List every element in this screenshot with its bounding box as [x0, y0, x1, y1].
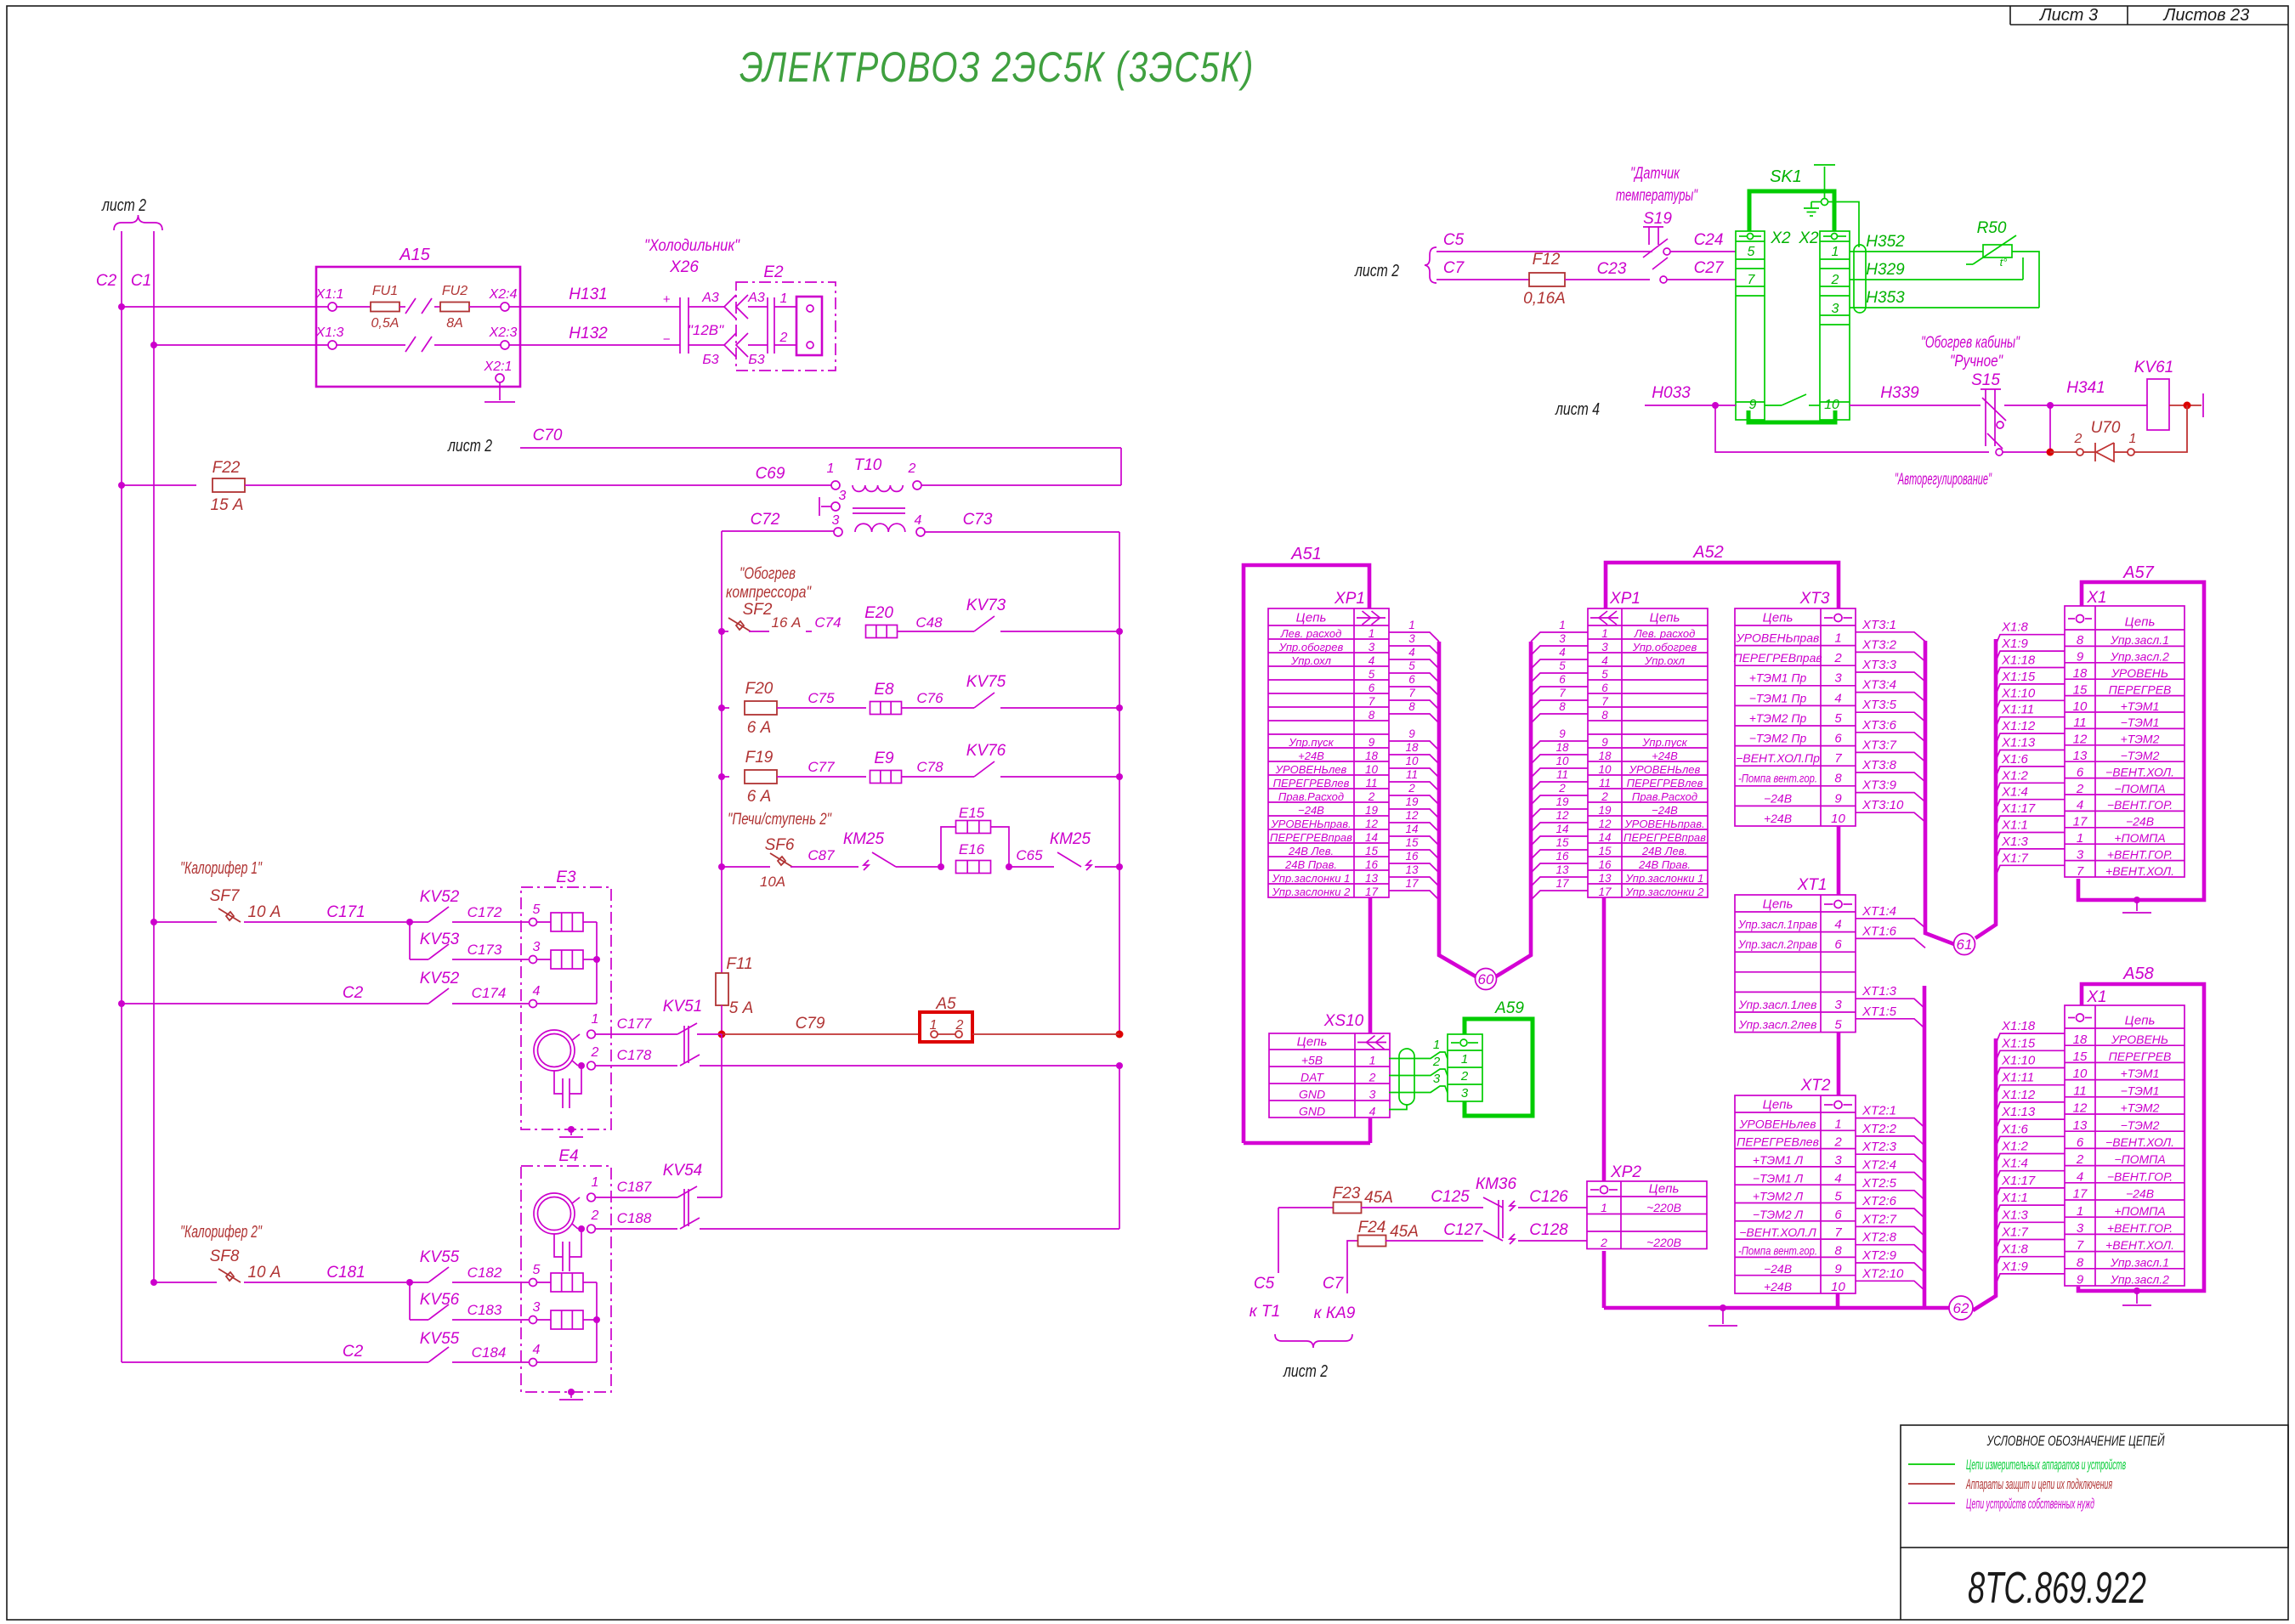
svg-text:УРОВЕНЬправ.: УРОВЕНЬправ. — [1623, 818, 1704, 830]
svg-text:1: 1 — [1601, 1201, 1607, 1214]
svg-text:18: 18 — [1365, 750, 1379, 762]
svg-text:+24В: +24В — [1764, 812, 1792, 825]
wire C126 — [1518, 1207, 1587, 1208]
wire C5 — [1436, 251, 1652, 252]
svg-text:4: 4 — [1559, 646, 1566, 659]
E4 pin 4 — [530, 1359, 537, 1367]
ground on bus — [1720, 1304, 1726, 1311]
wire C128 — [1518, 1240, 1587, 1242]
svg-text:17: 17 — [1555, 877, 1569, 890]
svg-text:ХТ3:5: ХТ3:5 — [1861, 698, 1897, 712]
svg-text:КМ25: КМ25 — [843, 830, 885, 848]
svg-text:4: 4 — [1408, 646, 1415, 659]
wire C1 vertical bus — [153, 231, 155, 1282]
svg-text:ХТ3:10: ХТ3:10 — [1861, 798, 1904, 812]
svg-text:F19: F19 — [745, 749, 773, 767]
svg-text:Упр.охл: Упр.охл — [1290, 654, 1332, 667]
wire C79 (red) — [718, 1031, 726, 1038]
svg-text:+ТЭМ1: +ТЭМ1 — [2121, 699, 2160, 713]
svg-text:24В Лев.: 24В Лев. — [1288, 845, 1334, 857]
table XT3 — [1735, 608, 1856, 826]
connector table A59 — [1448, 1034, 1482, 1101]
link H341 junction to lower row — [2049, 405, 2051, 452]
svg-text:45А: 45А — [1364, 1189, 1393, 1207]
svg-text:−24В: −24В — [1764, 791, 1792, 805]
row SF6 KM25: breaker SF6 10A — [718, 863, 725, 870]
E4 pin 3 with heater — [530, 1316, 537, 1324]
svg-text:УРОВЕНЬ: УРОВЕНЬ — [2111, 1033, 2168, 1046]
svg-text:+ПОМПА: +ПОМПА — [2114, 831, 2165, 845]
contact KV73 — [974, 616, 994, 631]
svg-text:С23: С23 — [1597, 260, 1627, 278]
svg-text:Е8: Е8 — [874, 681, 894, 699]
svg-text:SF2: SF2 — [743, 601, 773, 619]
svg-text:9: 9 — [1834, 791, 1842, 806]
svg-text:Н131: Н131 — [569, 286, 607, 303]
SK1 internal contact 9-10 — [1765, 405, 1782, 406]
svg-text:61: 61 — [1957, 936, 1973, 953]
wire XS10-2 to A59-2 (green) — [1389, 1069, 1448, 1076]
svg-text:ПЕРЕГРЕВлев: ПЕРЕГРЕВлев — [1273, 777, 1350, 789]
svg-text:Х1:15: Х1:15 — [2001, 670, 2036, 684]
thick vertical XT3 to XT1 — [1837, 826, 1841, 895]
svg-text:F23: F23 — [1333, 1185, 1361, 1202]
svg-text:−ТЭМ2 Л: −ТЭМ2 Л — [1753, 1208, 1804, 1221]
svg-text:С184: С184 — [472, 1344, 507, 1361]
svg-text:1: 1 — [2077, 1204, 2083, 1219]
wire C188 — [595, 1228, 677, 1230]
svg-text:А3: А3 — [747, 291, 765, 305]
svg-text:9: 9 — [2077, 650, 2084, 665]
T10 core — [853, 507, 905, 509]
svg-text:10: 10 — [1365, 763, 1379, 776]
thick vertical XT1 to XT2 — [1837, 1033, 1841, 1095]
svg-text:R50: R50 — [1977, 219, 2007, 237]
svg-text:Х1:11: Х1:11 — [2001, 703, 2034, 717]
svg-text:лист 2: лист 2 — [1283, 1362, 1328, 1381]
svg-text:3: 3 — [832, 513, 840, 528]
E3 pin 4 — [530, 1000, 537, 1008]
svg-text:7: 7 — [1748, 273, 1756, 287]
svg-text:Х1:7: Х1:7 — [2001, 851, 2029, 865]
row SF8: breaker SF8 10 A — [150, 1279, 157, 1286]
E4 motor pin 1 — [572, 1197, 580, 1203]
svg-text:1: 1 — [1834, 1117, 1841, 1131]
left rail of compressor-heater group — [721, 531, 722, 973]
A57 ground — [2133, 897, 2140, 903]
svg-text:2: 2 — [591, 1045, 599, 1060]
node circle 60 — [1476, 969, 1497, 990]
svg-text:1: 1 — [592, 1175, 599, 1190]
R50 output loop to H353 — [2012, 252, 2039, 308]
svg-text:ХТ3:7: ХТ3:7 — [1861, 738, 1897, 752]
svg-text:С172: С172 — [467, 904, 502, 920]
svg-text:15: 15 — [1405, 836, 1419, 849]
svg-text:SF6: SF6 — [765, 836, 795, 854]
svg-text:Х1:17: Х1:17 — [2001, 1174, 2036, 1188]
svg-text:GND: GND — [1299, 1088, 1325, 1101]
legend red line + text — [1908, 1483, 1955, 1485]
svg-text:ХТ3:6: ХТ3:6 — [1861, 718, 1897, 733]
svg-text:+ВЕНТ.ХОЛ.: +ВЕНТ.ХОЛ. — [2105, 1238, 2174, 1252]
svg-text:KV52: KV52 — [420, 970, 460, 987]
svg-text:18: 18 — [2073, 666, 2088, 681]
svg-text:"Обогрев: "Обогрев — [739, 565, 796, 583]
svg-text:С70: С70 — [533, 427, 563, 444]
svg-text:Х1:2: Х1:2 — [2001, 768, 2029, 783]
svg-text:ХТ3:1: ХТ3:1 — [1861, 618, 1896, 632]
title block 8ТС.869.922 — [1900, 1548, 1901, 1620]
svg-text:Упр.обогрев: Упр.обогрев — [1278, 641, 1344, 654]
cable marker (green oval) XS10-A59 — [1399, 1049, 1414, 1105]
svg-text:14: 14 — [1405, 823, 1418, 835]
svg-text:3: 3 — [1834, 998, 1842, 1012]
svg-text:DAT: DAT — [1300, 1071, 1324, 1084]
legend green line + text — [1908, 1463, 1955, 1465]
table XP1 A51 — [1268, 608, 1389, 897]
svg-text:"12В": "12В" — [688, 322, 724, 338]
svg-text:−24В: −24В — [1764, 1262, 1792, 1276]
svg-text:лист 2: лист 2 — [1354, 262, 1399, 280]
svg-text:5: 5 — [1834, 1190, 1842, 1204]
svg-text:FU2: FU2 — [442, 284, 467, 298]
row SF7: breaker SF7 10 A — [150, 919, 157, 925]
svg-text:+ВЕНТ.ГОР.: +ВЕНТ.ГОР. — [2107, 1221, 2173, 1235]
svg-text:Цепь: Цепь — [1763, 611, 1793, 625]
svg-text:Цепи устройств собственных нуж: Цепи устройств собственных нужд — [1966, 1496, 2094, 1512]
svg-text:Цепь: Цепь — [1297, 1035, 1328, 1050]
svg-text:16: 16 — [1405, 850, 1419, 863]
svg-text:−ВЕНТ.ГОР.: −ВЕНТ.ГОР. — [2107, 798, 2173, 812]
svg-text:F22: F22 — [212, 459, 241, 477]
svg-text:Х1:1: Х1:1 — [315, 287, 344, 302]
svg-text:5: 5 — [533, 903, 541, 917]
wire C24 — [1670, 251, 1736, 252]
vertical rail to KV54 — [721, 1034, 722, 1190]
wire C7 with fuse F12 0,16A — [1436, 279, 1530, 280]
svg-text:16: 16 — [1598, 858, 1612, 871]
svg-text:УСЛОВНОЕ ОБОЗНАЧЕНИЕ ЦЕПЕЙ: УСЛОВНОЕ ОБОЗНАЧЕНИЕ ЦЕПЕЙ — [1986, 1432, 2165, 1449]
fuse FU1 0,5A — [337, 306, 371, 308]
svg-text:2: 2 — [1460, 1069, 1469, 1084]
svg-text:11: 11 — [1599, 777, 1611, 789]
svg-text:13: 13 — [2073, 1118, 2088, 1133]
svg-text:12: 12 — [2073, 1101, 2088, 1116]
svg-text:Н341: Н341 — [2066, 379, 2105, 397]
svg-text:S15: S15 — [1971, 371, 2000, 389]
svg-text:12: 12 — [1598, 818, 1612, 830]
svg-text:Н132: Н132 — [569, 325, 608, 342]
wire XS10-1 to A59-1 (green) — [1389, 1052, 1448, 1059]
svg-text:Прав.Расход: Прав.Расход — [1632, 790, 1697, 803]
svg-text:16 А: 16 А — [772, 614, 802, 631]
wire H033 — [1645, 405, 1736, 406]
svg-text:ЭЛЕКТРОВОЗ 2ЭС5К (3ЭС5К): ЭЛЕКТРОВОЗ 2ЭС5К (3ЭС5К) — [739, 43, 1255, 91]
svg-text:А15: А15 — [399, 246, 430, 264]
svg-text:ХТ3:3: ХТ3:3 — [1861, 658, 1897, 672]
svg-text:6 А: 6 А — [747, 719, 772, 737]
svg-text:Х2: Х2 — [1798, 229, 1819, 247]
svg-text:ХS10: ХS10 — [1323, 1012, 1364, 1030]
svg-text:Цепь: Цепь — [1296, 611, 1327, 625]
svg-text:С174: С174 — [472, 985, 507, 1001]
svg-text:ХТ2:6: ХТ2:6 — [1861, 1194, 1897, 1208]
svg-text:С125: С125 — [1431, 1188, 1470, 1206]
svg-text:2: 2 — [1558, 782, 1566, 795]
SK1 earth terminal circle — [1822, 199, 1828, 206]
svg-text:2: 2 — [908, 461, 916, 476]
svg-text:+ТЭМ1 Пр: +ТЭМ1 Пр — [1749, 671, 1807, 685]
svg-text:9: 9 — [1601, 736, 1608, 749]
label C65 — [1009, 866, 1054, 868]
row F19: fuse F19 6 A — [718, 773, 725, 780]
svg-text:KV76: KV76 — [966, 742, 1006, 760]
svg-text:А51: А51 — [1290, 545, 1322, 563]
wire C72 — [722, 530, 834, 532]
svg-text:ХТ3: ХТ3 — [1799, 590, 1830, 608]
svg-text:3: 3 — [533, 940, 541, 954]
wire C73 — [925, 531, 1119, 533]
svg-text:КМ36: КМ36 — [1476, 1175, 1517, 1193]
E3 right rail — [596, 922, 598, 1004]
svg-text:KV75: KV75 — [966, 673, 1006, 691]
svg-text:1: 1 — [1368, 627, 1375, 640]
svg-text:5: 5 — [1559, 659, 1566, 672]
svg-text:Х1:18: Х1:18 — [2001, 1019, 2036, 1033]
svg-text:4: 4 — [2077, 1169, 2083, 1184]
svg-text:3: 3 — [1601, 641, 1608, 654]
svg-text:5: 5 — [1748, 245, 1755, 259]
svg-text:5: 5 — [533, 1263, 541, 1277]
contact KV56 — [428, 1304, 449, 1320]
svg-text:Упр.засл.2: Упр.засл.2 — [2110, 1273, 2169, 1287]
terminal X2:4 — [469, 306, 501, 308]
device A5 (red box) — [920, 1012, 972, 1042]
wire U70 to KV61 (red) — [2134, 405, 2187, 452]
svg-text:17: 17 — [1405, 877, 1419, 890]
svg-text:+ТЭМ1 Л: +ТЭМ1 Л — [1753, 1153, 1804, 1167]
legend magenta line + text — [1908, 1502, 1955, 1504]
svg-text:+5В: +5В — [1301, 1054, 1323, 1067]
svg-text:3: 3 — [1368, 641, 1375, 654]
svg-text:ХТ2:9: ХТ2:9 — [1861, 1248, 1897, 1263]
svg-text:3: 3 — [839, 489, 847, 503]
svg-text:+ВЕНТ.ХОЛ.: +ВЕНТ.ХОЛ. — [2105, 864, 2174, 878]
svg-text:ХТ2:8: ХТ2:8 — [1861, 1231, 1897, 1245]
svg-text:10: 10 — [1824, 398, 1839, 412]
right rail of heater group — [1119, 532, 1120, 1034]
wire C177 — [595, 1033, 677, 1035]
svg-text:Е2: Е2 — [763, 263, 784, 281]
XT1 lower stubs — [1856, 999, 1924, 1008]
svg-text:14: 14 — [1555, 823, 1568, 835]
svg-text:3: 3 — [2077, 1221, 2084, 1236]
svg-text:ПЕРЕГРЕВ: ПЕРЕГРЕВ — [2109, 682, 2172, 696]
svg-text:Лев. расход: Лев. расход — [1280, 627, 1342, 640]
thick link XP2 to ground bus — [1602, 1251, 1606, 1308]
svg-text:ПЕРЕГРЕВправ: ПЕРЕГРЕВправ — [1733, 651, 1822, 665]
svg-text:1: 1 — [1559, 619, 1566, 631]
E3 ground — [568, 1126, 575, 1133]
svg-text:12: 12 — [1405, 809, 1419, 822]
svg-text:17: 17 — [2073, 1187, 2088, 1202]
E3 motor pin 2 — [572, 1061, 578, 1066]
svg-text:+24В: +24В — [1764, 1280, 1792, 1293]
svg-text:ХТ1:4: ХТ1:4 — [1861, 904, 1896, 919]
svg-text:8: 8 — [1834, 772, 1842, 786]
connector X26 bars — [679, 297, 681, 354]
svg-text:4: 4 — [533, 984, 541, 999]
svg-text:−ТЭМ1: −ТЭМ1 — [2121, 1084, 2160, 1097]
svg-text:Н352: Н352 — [1866, 233, 1905, 251]
svg-text:7: 7 — [1408, 687, 1415, 699]
svg-text:1: 1 — [592, 1012, 599, 1027]
svg-text:−24В: −24В — [1298, 804, 1324, 817]
svg-text:лист 2: лист 2 — [447, 437, 492, 456]
svg-text:14: 14 — [1365, 831, 1378, 844]
svg-text:Н329: Н329 — [1866, 261, 1905, 279]
device block E4 (dash-dot) — [521, 1166, 611, 1392]
svg-text:С7: С7 — [1323, 1275, 1345, 1293]
svg-text:8: 8 — [1601, 709, 1608, 721]
A58 ground — [2133, 1287, 2140, 1294]
svg-text:Х2:1: Х2:1 — [484, 359, 513, 374]
svg-text:0,5А: 0,5А — [371, 316, 399, 331]
svg-text:5: 5 — [1834, 1018, 1842, 1033]
A58 wire stubs from trunk — [1996, 1033, 2065, 1044]
svg-text:"Калорифер 1": "Калорифер 1" — [180, 859, 263, 878]
svg-text:Х1:9: Х1:9 — [2001, 1259, 2029, 1274]
svg-text:9: 9 — [1368, 736, 1375, 749]
svg-text:Упр.заслонки 2: Упр.заслонки 2 — [1272, 886, 1351, 898]
wire C127 with fuse F24 45A — [1347, 1241, 1357, 1275]
svg-text:Упр.засл.1лев: Упр.засл.1лев — [1738, 998, 1817, 1011]
svg-text:17: 17 — [1365, 886, 1379, 898]
thick vertical XT2 to ground bus — [1836, 1293, 1840, 1308]
branch to KV56 — [409, 1282, 411, 1320]
wire to A15 X1:1 (row y=361) — [122, 306, 328, 308]
E4 ground — [568, 1389, 575, 1395]
SK1 thick bracket — [1749, 191, 1834, 231]
svg-text:14: 14 — [1598, 831, 1611, 844]
SK1 right connector column X2 — [1820, 231, 1850, 420]
svg-text:Х1:6: Х1:6 — [2001, 1122, 2029, 1136]
svg-text:Х1: Х1 — [2086, 589, 2106, 607]
wire H339 — [1850, 405, 1980, 406]
svg-text:Х26: Х26 — [669, 258, 699, 276]
svg-text:С128: С128 — [1529, 1221, 1568, 1239]
svg-text:5: 5 — [1408, 659, 1415, 672]
svg-text:ХТ2:2: ХТ2:2 — [1861, 1122, 1897, 1136]
svg-text:SF8: SF8 — [210, 1248, 240, 1265]
svg-text:С188: С188 — [617, 1210, 652, 1226]
svg-text:−ВЕНТ.ГОР.: −ВЕНТ.ГОР. — [2107, 1169, 2173, 1183]
svg-text:8: 8 — [1408, 700, 1415, 713]
svg-text:2: 2 — [1368, 1071, 1376, 1084]
svg-text:−ТЭМ1: −ТЭМ1 — [2121, 716, 2160, 729]
svg-text:10: 10 — [1555, 755, 1569, 767]
svg-text:Е4: Е4 — [558, 1147, 578, 1165]
E4 fan motor — [534, 1193, 575, 1234]
svg-text:2: 2 — [2074, 432, 2082, 446]
svg-text:2: 2 — [1601, 790, 1608, 803]
svg-text:F20: F20 — [745, 680, 773, 698]
fuse F22 15 A — [212, 478, 245, 492]
lower wire Авторегулирование — [1715, 405, 1989, 452]
svg-text:С7: С7 — [1443, 259, 1465, 277]
svg-text:С48: С48 — [915, 614, 943, 631]
svg-text:−ТЭМ1 Л: −ТЭМ1 Л — [1753, 1171, 1804, 1185]
svg-text:Х1:3: Х1:3 — [2001, 1208, 2029, 1222]
wire C187 — [595, 1197, 677, 1198]
device block E3 (dash-dot) — [521, 887, 611, 1129]
heater E16 with junctions — [938, 863, 944, 870]
svg-text:к Т1: к Т1 — [1249, 1303, 1280, 1321]
SK1 bottom thick bracket — [1748, 410, 1835, 422]
terminal X1:3 — [328, 341, 337, 349]
svg-text:7: 7 — [1834, 751, 1842, 766]
contact KV52 no.1 — [428, 907, 449, 922]
row F20: fuse F20 6 A — [718, 704, 725, 711]
svg-text:Н339: Н339 — [1880, 384, 1919, 402]
svg-text:13: 13 — [1555, 863, 1569, 876]
svg-text:9: 9 — [1749, 398, 1757, 412]
device block E2 (dash-dot) — [736, 282, 836, 371]
E3 motor pin 1 — [572, 1034, 580, 1040]
svg-text:−24В: −24В — [2126, 815, 2154, 829]
svg-text:Лев. расход: Лев. расход — [1634, 627, 1696, 640]
svg-text:KV73: KV73 — [966, 597, 1006, 614]
svg-text:6: 6 — [1834, 937, 1842, 952]
thick link XP1-A52 to XP2 — [1602, 897, 1606, 1181]
svg-text:11: 11 — [1406, 768, 1418, 781]
svg-text:Е3: Е3 — [556, 869, 576, 886]
svg-text:"Калорифер 2": "Калорифер 2" — [180, 1223, 263, 1242]
svg-text:Х1:1: Х1:1 — [2001, 1191, 2028, 1205]
svg-text:2: 2 — [2076, 782, 2084, 796]
svg-text:ХТ2:1: ХТ2:1 — [1861, 1104, 1896, 1118]
svg-text:ПЕРЕГРЕВлев: ПЕРЕГРЕВлев — [1737, 1135, 1819, 1149]
svg-text:Прав.Расход: Прав.Расход — [1278, 790, 1344, 803]
svg-text:SK1: SK1 — [1770, 167, 1802, 186]
contact blades in A15 row 2 — [337, 344, 405, 346]
svg-text:С73: С73 — [963, 511, 993, 529]
svg-text:1: 1 — [1601, 627, 1608, 640]
contact KV76 — [974, 761, 994, 777]
svg-text:10: 10 — [2073, 699, 2088, 714]
brace under C5/C7 — [1275, 1334, 1352, 1348]
svg-text:2: 2 — [1833, 1135, 1842, 1150]
svg-text:С87: С87 — [807, 847, 835, 863]
svg-text:8: 8 — [2077, 633, 2084, 648]
svg-text:12: 12 — [2073, 733, 2088, 747]
table XP1 A52 — [1588, 608, 1708, 897]
svg-text:2: 2 — [1368, 790, 1375, 803]
svg-text:KV55: KV55 — [420, 1248, 460, 1266]
svg-text:+ВЕНТ.ГОР.: +ВЕНТ.ГОР. — [2107, 847, 2173, 861]
svg-text:ХТ2:7: ХТ2:7 — [1861, 1212, 1897, 1226]
svg-text:"Датчик: "Датчик — [1630, 165, 1680, 183]
contact KV53 — [428, 944, 449, 959]
svg-text:1: 1 — [1408, 619, 1415, 631]
svg-text:6: 6 — [1559, 673, 1566, 686]
wire from S15 to U70 (red) — [2003, 451, 2050, 453]
svg-text:А58: А58 — [2122, 965, 2154, 983]
svg-text:Цепь: Цепь — [1763, 897, 1793, 912]
table X1 A58 — [2065, 1005, 2184, 1286]
svg-text:11: 11 — [2073, 716, 2087, 730]
contact KV52 no.2 — [428, 988, 449, 1004]
